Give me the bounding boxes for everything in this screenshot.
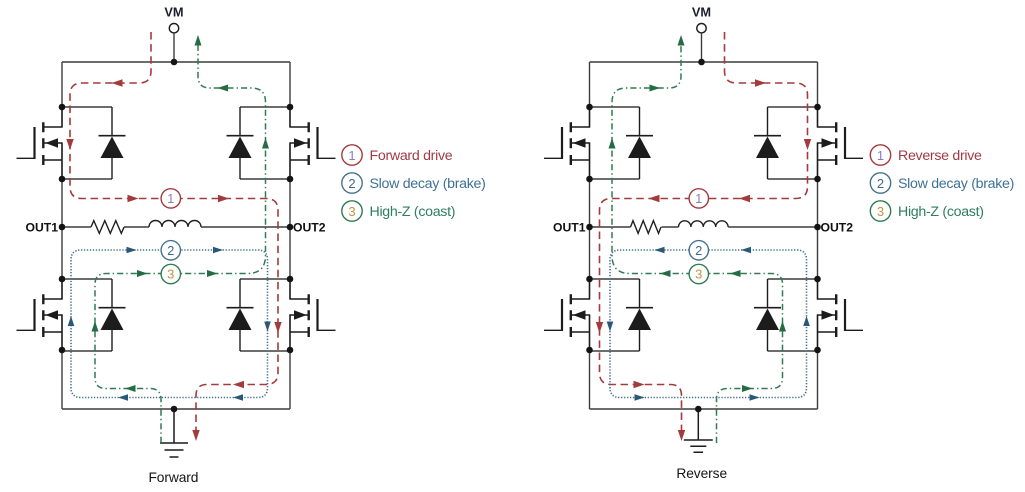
transistor: low-side right MOSFET (Forward)	[290, 279, 336, 351]
legend item 2: Slow decay (brake) (Reverse)	[870, 173, 1014, 193]
svg-text:OUT2: OUT2	[821, 221, 854, 235]
current path 1: forward drive (red dashed) (Forward)	[66, 32, 281, 441]
body diode of low-side right MOSFET (Reverse)	[754, 279, 818, 351]
transistor: high-side left MOSFET (Reverse)	[544, 107, 590, 179]
wire: left edge segments OUT1 branch (Reverse)	[589, 62, 591, 409]
legend item 1: Forward drive (Forward)	[342, 145, 453, 165]
VM supply terminal (Reverse)	[697, 24, 706, 63]
wire: top rail from drain of high-side FETs to VM node (Reverse)	[590, 61, 818, 63]
node badge 1 on path (Reverse)	[689, 189, 708, 208]
inductor: motor winding inductance (Forward)	[149, 221, 201, 228]
junction dots (Reverse)	[586, 59, 821, 413]
svg-text:1: 1	[877, 148, 884, 163]
wire: top rail from drain of high-side FETs to VM node (Forward)	[62, 61, 290, 63]
svg-text:VM: VM	[692, 5, 711, 20]
svg-text:Forward: Forward	[148, 470, 198, 485]
body diode of high-side left MOSFET (Reverse)	[590, 107, 654, 179]
svg-text:High-Z (coast): High-Z (coast)	[898, 204, 984, 220]
svg-text:OUT2: OUT2	[293, 221, 326, 235]
current path 1: reverse drive (red dashed) (Reverse)	[596, 32, 811, 441]
svg-text:2: 2	[167, 243, 174, 258]
ground symbol (Forward)	[160, 409, 188, 457]
svg-text:3: 3	[167, 267, 174, 282]
svg-text:Slow decay (brake): Slow decay (brake)	[370, 176, 486, 192]
body diode of high-side right MOSFET (Forward)	[227, 107, 291, 179]
transistor: high-side right MOSFET (Forward)	[290, 107, 336, 179]
current path 3: high-Z coast (green dash-dot) (Reverse)	[609, 35, 787, 443]
wire: between resistor and inductor (Reverse)	[662, 226, 679, 228]
svg-text:Reverse drive: Reverse drive	[898, 148, 982, 164]
wire: OUT1 lead to motor winding (Reverse)	[590, 226, 631, 228]
current path 3: high-Z coast (green dash-dot) (Forward)	[92, 35, 270, 443]
svg-text:OUT1: OUT1	[553, 221, 586, 235]
wire: bottom rail to ground node (Forward)	[62, 408, 290, 410]
legend item 2: Slow decay (brake) (Forward)	[342, 173, 486, 193]
current path 2: slow decay brake loop (blue dotted) (Forward)	[68, 247, 271, 401]
inductor: motor winding inductance (Reverse)	[679, 221, 729, 227]
wire: right edge segments OUT2 branch (Forward)	[289, 62, 291, 409]
svg-text:OUT1: OUT1	[25, 221, 58, 235]
body diode of high-side left MOSFET (Forward)	[62, 107, 126, 179]
junction dots (Forward)	[59, 59, 294, 413]
svg-text:1: 1	[167, 191, 174, 206]
transistor: low-side left MOSFET (Reverse)	[544, 279, 590, 351]
legend item 3: High-Z (coast) (Reverse)	[870, 201, 983, 221]
legend item 3: High-Z (coast) (Forward)	[342, 201, 455, 221]
node badge 2 on path (Forward)	[161, 241, 180, 260]
body diode of low-side left MOSFET (Forward)	[62, 279, 126, 351]
wire: between resistor and inductor (Forward)	[124, 226, 149, 228]
node badge 1 on path (Forward)	[161, 189, 180, 208]
current path 2: slow decay brake loop (blue dotted) (Reverse)	[607, 247, 810, 401]
body diode of low-side right MOSFET (Forward)	[227, 279, 291, 351]
svg-text:Slow decay (brake): Slow decay (brake)	[898, 176, 1014, 192]
body diode of low-side left MOSFET (Reverse)	[590, 279, 654, 351]
legend item 1: Reverse drive (Reverse)	[870, 145, 982, 165]
wire: inductor to OUT2 (Forward)	[201, 226, 290, 228]
svg-text:1: 1	[695, 191, 702, 206]
wire: inductor to OUT2 (Reverse)	[728, 226, 817, 228]
svg-text:3: 3	[877, 204, 884, 219]
node badge 3 on path (Reverse)	[689, 264, 708, 283]
svg-text:Reverse: Reverse	[676, 466, 727, 481]
svg-text:2: 2	[348, 176, 355, 191]
svg-text:3: 3	[348, 204, 355, 219]
wire: left edge segments OUT1 branch (Forward)	[61, 62, 63, 409]
svg-text:VM: VM	[164, 5, 183, 20]
svg-text:Forward drive: Forward drive	[370, 148, 453, 164]
VM supply terminal (Forward)	[169, 24, 178, 63]
transistor: high-side left MOSFET (Forward)	[17, 107, 63, 179]
transistor: high-side right MOSFET (Reverse)	[818, 107, 864, 179]
svg-text:2: 2	[695, 243, 702, 258]
svg-text:3: 3	[695, 267, 702, 282]
resistor: motor winding resistance (Reverse)	[631, 221, 661, 234]
body diode of high-side right MOSFET (Reverse)	[754, 107, 818, 179]
svg-text:High-Z (coast): High-Z (coast)	[370, 204, 456, 220]
resistor: motor winding resistance (Forward)	[91, 221, 124, 234]
transistor: low-side left MOSFET (Forward)	[17, 279, 63, 351]
ground symbol (Reverse)	[684, 409, 713, 452]
node badge 2 on path (Reverse)	[689, 241, 708, 260]
node badge 3 on path (Forward)	[161, 264, 180, 283]
wire: right edge segments OUT2 branch (Reverse)	[817, 62, 819, 409]
svg-text:2: 2	[877, 176, 884, 191]
wire: OUT1 lead to motor winding (Forward)	[62, 226, 91, 228]
wire: bottom rail to ground node (Reverse)	[590, 408, 818, 410]
transistor: low-side right MOSFET (Reverse)	[818, 279, 864, 351]
svg-text:1: 1	[348, 148, 355, 163]
